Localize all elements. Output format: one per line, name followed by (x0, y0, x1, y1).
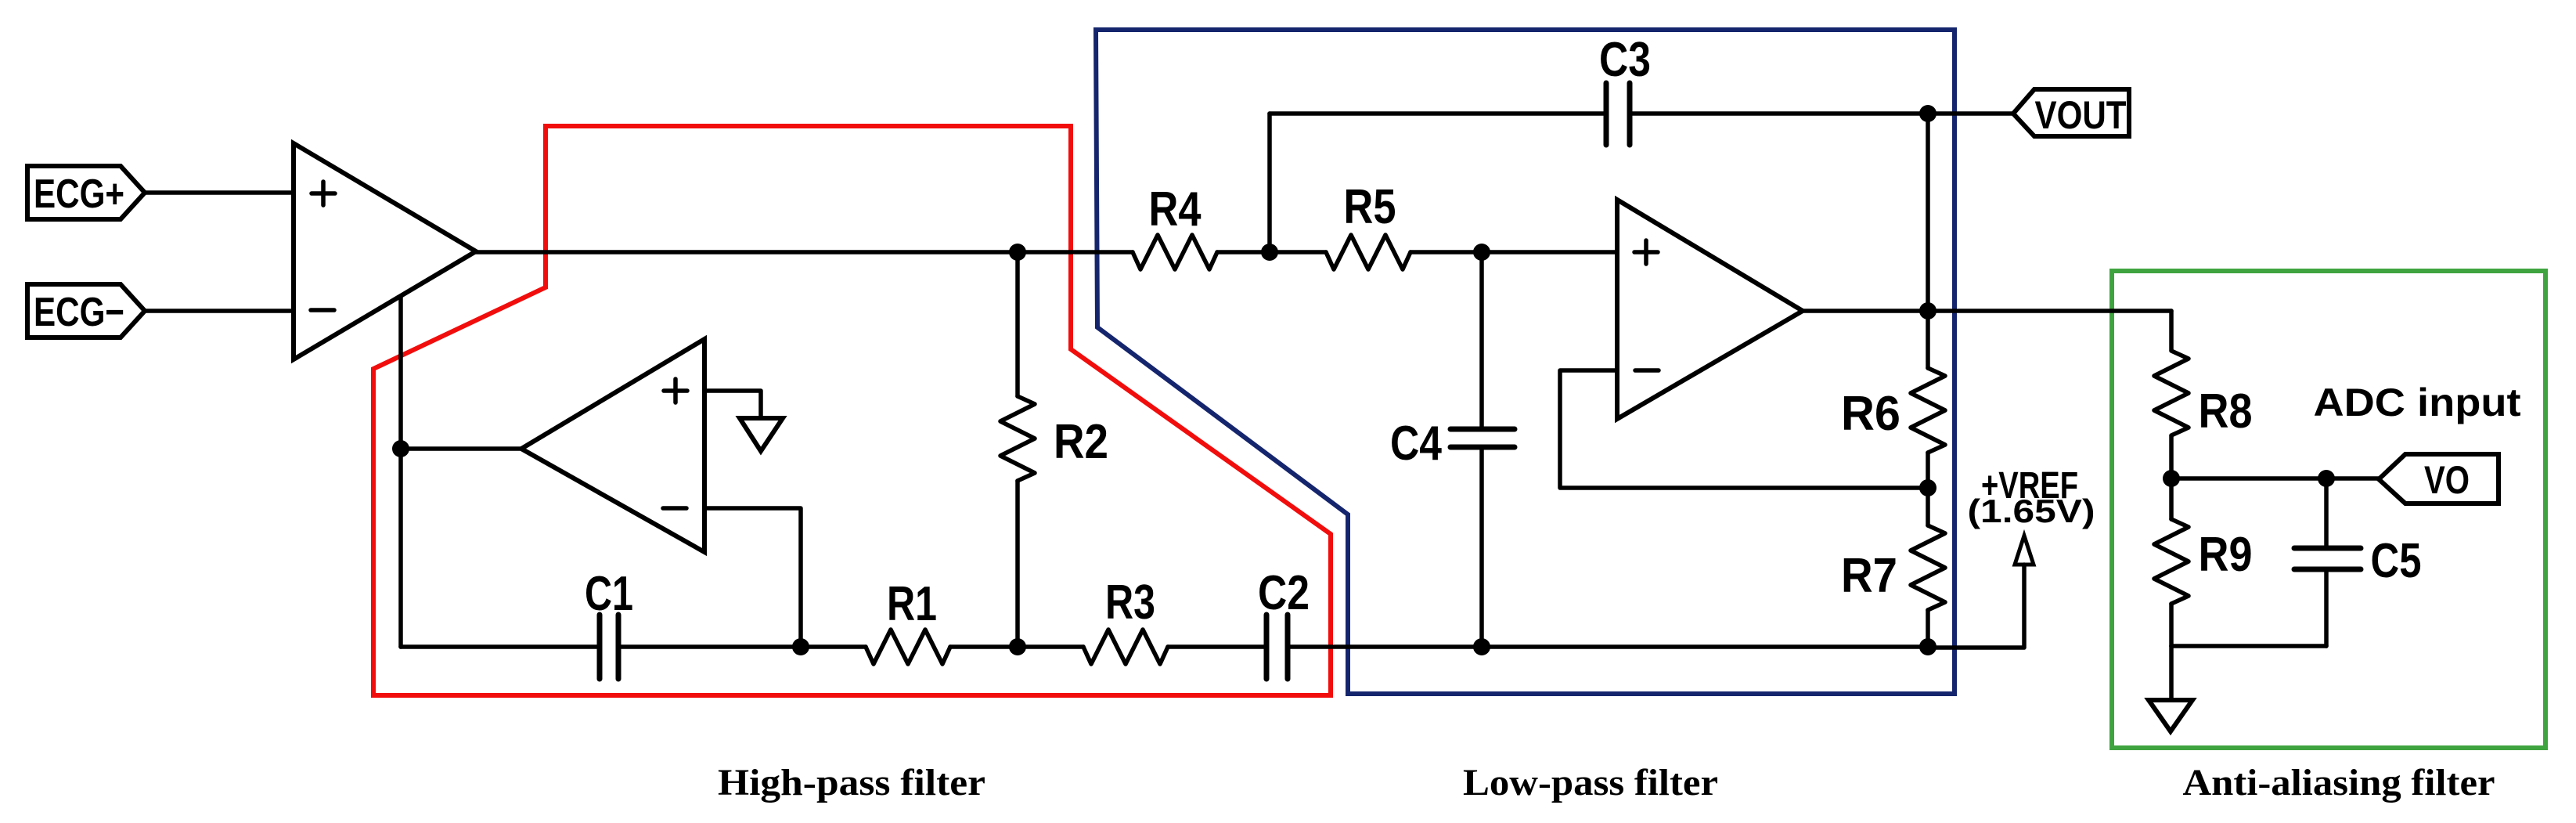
svg-text:ECG+: ECG+ (34, 171, 124, 217)
op-amp U2 (buffer) (521, 339, 704, 552)
node C1-R1 junction (792, 638, 809, 655)
resistor R4 (1133, 235, 1217, 269)
resistor R9 (2154, 519, 2189, 604)
label R3 (1105, 576, 1155, 630)
wire bottom rail to C1 (401, 644, 600, 649)
capacitor C2 (1266, 615, 1288, 679)
wire bottom of divider (2171, 644, 2326, 648)
wire C2 to R7 bottom rail (1288, 644, 1928, 649)
U3 plus sign (1634, 240, 1658, 264)
wire C4 bottom branch (1479, 447, 1484, 647)
label ADC input (2314, 381, 2521, 424)
label ECG- (34, 290, 124, 335)
resistor R1 (866, 630, 950, 664)
wire ECG+ to U1 noninverting input (145, 190, 294, 195)
svg-text:ADC input: ADC input (2314, 381, 2521, 424)
VREF arrow head (2015, 536, 2034, 565)
svg-text:Low-pass filter: Low-pass filter (1463, 762, 1718, 803)
label C2 (1258, 566, 1310, 620)
node U3 output junction (1919, 302, 1937, 319)
wire R2 top (1015, 252, 1020, 396)
U1 minus sign (311, 308, 334, 312)
U3 minus sign (1635, 368, 1659, 373)
wire R4 to R5 (1217, 250, 1326, 254)
label R1 (887, 577, 937, 631)
node C5 top (2318, 470, 2335, 487)
wire C3 right plate to VOUT node (1630, 111, 1928, 116)
label R7 (1841, 549, 1897, 603)
U1 plus sign (312, 182, 335, 205)
svg-text:Anti-aliasing filter: Anti-aliasing filter (2183, 762, 2495, 803)
wire R1 to R3 (950, 644, 1083, 649)
svg-text:R2: R2 (1054, 415, 1108, 469)
U2 plus sign (664, 379, 687, 402)
wire VREF stub (1928, 565, 2024, 648)
wire R5 to U3 noninverting input (1410, 250, 1617, 254)
svg-text:C1: C1 (585, 567, 633, 621)
resistor R6 (1911, 368, 1945, 453)
svg-text:ECG−: ECG− (34, 290, 124, 335)
resistor R8 (2154, 351, 2189, 435)
label R2 (1054, 415, 1108, 469)
port flag ECG+ (27, 166, 145, 219)
wire into R8 (2169, 311, 2174, 350)
ground (anti-aliasing) (2149, 700, 2192, 731)
label R8 (2199, 384, 2253, 439)
wire U3 output (1803, 309, 2171, 313)
svg-text:R3: R3 (1105, 576, 1155, 630)
node C4 bottom (1473, 638, 1490, 655)
low-pass filter region outline (blue) (1096, 30, 1955, 694)
capacitor C1 (600, 615, 618, 679)
wire R2 bottom (1015, 481, 1020, 647)
node U1 REF / U2 output (392, 440, 409, 457)
wire C5 bottom branch (2324, 569, 2329, 646)
resistor R5 (1326, 235, 1410, 269)
label C4 (1390, 417, 1442, 471)
label R6 (1841, 387, 1900, 441)
capacitor C3 (1606, 83, 1630, 145)
svg-text:R6: R6 (1841, 387, 1900, 441)
node R2 top (1009, 244, 1026, 261)
wire node to VO flag (2171, 476, 2379, 481)
wire ECG- to U1 inverting input (145, 309, 294, 313)
label VOUT (2035, 93, 2127, 137)
wire U1 REF pin down (398, 296, 403, 449)
svg-text:C3: C3 (1599, 33, 1651, 87)
svg-text:(1.65V): (1.65V) (1968, 493, 2095, 529)
wire R8 bottom stub (2169, 436, 2174, 478)
capacitor C4 (1450, 429, 1515, 447)
node R8-R9-VO junction (2163, 470, 2180, 487)
ground (U2 +) (740, 418, 783, 451)
port flag VO (2379, 454, 2499, 504)
wire R6 top stub (1926, 311, 1930, 368)
svg-text:R9: R9 (2199, 528, 2253, 582)
wire VOUT column (1926, 114, 1930, 311)
svg-text:R1: R1 (887, 577, 937, 631)
wire U1 output to R4 (476, 250, 1133, 254)
svg-text:VO: VO (2424, 458, 2470, 502)
svg-text:C2: C2 (1258, 566, 1310, 620)
node R6-R7 junction (1919, 479, 1937, 496)
U2 minus sign (663, 506, 686, 511)
caption Low-pass filter (1463, 762, 1718, 803)
svg-text:VOUT: VOUT (2035, 93, 2127, 137)
wire node to U2 output apex (401, 446, 521, 451)
anti-aliasing filter region outline (green) (2112, 271, 2545, 748)
label C1 (585, 567, 633, 621)
node R1-R2-R3 junction (1009, 638, 1026, 655)
op-amp U1 (294, 143, 476, 359)
wire C4 top branch (1479, 252, 1484, 429)
label (1.65V) (1968, 493, 2095, 529)
wire U3 feedback (1560, 370, 1928, 488)
svg-text:R7: R7 (1841, 549, 1897, 603)
node C3-VOUT junction (1919, 105, 1937, 122)
label R5 (1344, 180, 1396, 234)
label C5 (2371, 534, 2422, 588)
caption High-pass filter (718, 762, 985, 803)
wire node down to bottom rail (398, 449, 403, 647)
wire C3 branch up (1267, 114, 1272, 252)
node R4-R5-C3 junction (1261, 244, 1278, 261)
node C4 top (1473, 244, 1490, 261)
wire R9 bottom stub (2169, 604, 2174, 646)
resistor R7 (1911, 525, 1945, 610)
wire to VOUT flag (1928, 111, 2013, 116)
resistor R2 (1000, 396, 1035, 481)
port flag ECG- (27, 284, 145, 338)
wire C1 to R1 (618, 644, 866, 649)
port flag VOUT (2013, 89, 2129, 136)
wire R3 to C2 (1168, 644, 1266, 649)
svg-text:C5: C5 (2371, 534, 2422, 588)
op-amp U3 (1617, 200, 1803, 419)
wire R7 top stub (1926, 488, 1930, 525)
high-pass filter region outline (red) (373, 126, 1331, 695)
svg-text:R5: R5 (1344, 180, 1396, 234)
label C3 (1599, 33, 1651, 87)
wire R6 bottom stub (1926, 453, 1930, 488)
node bottom rail VREF junction (1919, 638, 1937, 655)
label VO (2424, 458, 2470, 502)
label R9 (2199, 528, 2253, 582)
wire U2 inverting input feedback (704, 508, 801, 647)
caption Anti-aliasing filter (2183, 762, 2495, 803)
wire C5 top branch (2324, 478, 2329, 548)
wire to ground (2169, 646, 2174, 700)
svg-text:C4: C4 (1390, 417, 1442, 471)
wire to C3 left plate (1270, 111, 1606, 116)
svg-text:R8: R8 (2199, 384, 2253, 439)
wire R7 bottom stub (1926, 610, 1930, 647)
resistor R3 (1083, 630, 1168, 664)
wire R9 top stub (2169, 478, 2174, 519)
capacitor C5 (2294, 548, 2361, 569)
label +VREF (1981, 465, 2078, 507)
svg-text:R4: R4 (1149, 182, 1202, 236)
label ECG+ (34, 171, 124, 217)
svg-text:High-pass filter: High-pass filter (718, 762, 985, 803)
wire U2 noninverting input to ground (704, 391, 761, 418)
label R4 (1149, 182, 1202, 236)
